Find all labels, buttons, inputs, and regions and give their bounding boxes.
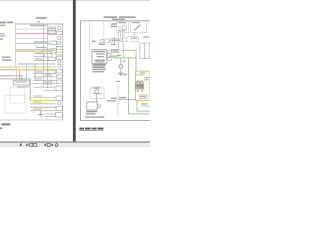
wire tan vertical drop (18, 70, 21, 81)
wire label row2 (36, 47, 46, 48)
diagram right border (61, 24, 64, 121)
connector symbol P12 (56, 80, 62, 83)
wire drop left (113, 37, 116, 44)
caption left page (1, 123, 10, 124)
motor symbol M1 (95, 90, 99, 94)
connector symbol P7 (56, 56, 62, 59)
switch blade (134, 25, 141, 31)
wire green vertical long (127, 57, 130, 114)
wire gray row y76.6 (33, 76, 56, 79)
wire label row1 (34, 41, 47, 42)
violet stub right (148, 57, 151, 60)
note text left of relay box (111, 23, 117, 25)
wire gray row y83.3 (33, 82, 56, 85)
faint wire from top border to module (88, 21, 91, 50)
header text left page (36, 17, 47, 19)
wire gray row y73.3 (33, 72, 56, 75)
label right of stub (123, 61, 126, 63)
connector symbol P3 (58, 36, 61, 39)
diagram top border (14, 23, 63, 26)
connector symbol P17 (56, 113, 63, 117)
wire gray row3 short (34, 55, 44, 58)
yellow module box (135, 71, 150, 100)
wire teal row (18, 63, 36, 66)
diagram bottom border (0, 119, 63, 122)
wire vertical band to box1 (117, 43, 120, 50)
violet top stub right (148, 42, 151, 45)
right page border top (80, 19, 150, 22)
junction block box (87, 102, 97, 110)
wire yellow vertical (14, 24, 17, 67)
harness dashed vertical (117, 84, 119, 117)
faint wire down to band connector (103, 21, 106, 39)
connector box J6 (48, 70, 56, 73)
connector symbol P6 (56, 52, 63, 55)
label right of fuse (143, 36, 149, 37)
text rows inside yellow box right (144, 77, 149, 78)
wire gray stub to ground (120, 58, 123, 65)
wire faint violet row (16, 37, 48, 40)
connector symbol P4 (58, 41, 61, 44)
inner yellow small box (139, 95, 147, 99)
motor label (93, 87, 100, 88)
connector symbol P2 (56, 31, 62, 34)
connector symbol P8 (58, 60, 61, 63)
wire gray row2 (16, 48, 51, 51)
wire green bottom horizontal (128, 112, 150, 115)
motor dashed box (90, 87, 104, 99)
wire green exit vertical (136, 100, 139, 111)
harness top label (116, 81, 120, 82)
wire gray row y80 (33, 79, 56, 82)
wire tan bottom row (30, 106, 56, 109)
connector box J1 (48, 27, 56, 31)
switch drop wire (133, 33, 136, 37)
connector symbol P11 (56, 75, 62, 78)
junction side tab (97, 105, 100, 108)
wire gray mid label left (111, 98, 117, 99)
green label small (141, 103, 147, 104)
motor internal wire (92, 92, 101, 95)
small text label mid (92, 41, 95, 43)
wire gray row y90.4 (44, 89, 56, 92)
notes text rows under X1 (92, 64, 106, 66)
connector stubs right of X1 (108, 50, 112, 53)
wire label row3 (35, 53, 43, 54)
green wire label (110, 56, 117, 57)
wire yellow row (0, 66, 56, 69)
relay R1 symbol (136, 83, 140, 89)
wire magenta row (16, 32, 56, 35)
connector box J2 (48, 31, 56, 34)
bottom note row (85, 116, 104, 117)
fuse box F1 (131, 36, 139, 41)
motor drop wire (95, 94, 98, 102)
wire green short right (141, 105, 150, 108)
junction block label (86, 111, 97, 112)
header text right page line2 (112, 19, 125, 20)
wire teal vertical (34, 64, 37, 80)
wire gray bottom row2 (30, 109, 56, 112)
wire gray drop x26 (25, 64, 28, 80)
wire tan L horizontal (121, 49, 136, 52)
connector symbol P9 (58, 64, 61, 67)
right page border bottom (80, 119, 150, 122)
inline component on stub (119, 65, 122, 68)
connector symbol P14 (56, 96, 62, 101)
violet divider (143, 43, 146, 59)
wire green main horizontal (111, 56, 136, 59)
connector box J5 (48, 57, 56, 60)
ground symbol (39, 111, 42, 114)
connector box J4 (50, 49, 57, 53)
label next to K1 (117, 55, 121, 57)
tiny colored mark above border (37, 21, 40, 22)
wire faint pink row (16, 28, 48, 31)
top hairline (0, 0, 150, 1)
wire green coil horizontal (136, 73, 145, 76)
connector symbol P10 (56, 70, 62, 73)
toolbar top line (0, 141, 150, 142)
connector marks mid (45, 54, 53, 57)
stub continues (120, 68, 123, 73)
violet box (140, 43, 149, 59)
page background (0, 0, 150, 150)
text under border (30, 25, 46, 27)
wire gray bottom row (30, 103, 56, 106)
left notes text y56-62 (2, 57, 11, 58)
wire violet vertical (21, 75, 24, 80)
faint big boxes bottom-left (10, 88, 24, 103)
divider bar (73, 0, 76, 143)
wire green exit horizontal (137, 110, 150, 113)
connector band row (100, 39, 103, 42)
header text right page line1 (104, 16, 118, 18)
connector box C1 (13, 80, 30, 85)
label above green inside box (140, 72, 145, 73)
bus vertical x43.5 (42, 24, 45, 88)
wire tan L vertical (135, 50, 138, 72)
caption right page (79, 128, 84, 130)
relay R2 symbol (140, 83, 143, 89)
label above relays (136, 81, 143, 82)
relay legs (136, 89, 139, 92)
connector symbol P16 (56, 106, 62, 110)
stub wires below relay box (117, 33, 120, 38)
wire orange row (16, 50, 53, 53)
wire gray row y63.5 right (36, 63, 56, 66)
wire gray mid (118, 98, 136, 101)
module box X1 with text rows (92, 50, 107, 64)
connector symbol P5 (56, 46, 62, 49)
wire tan row (0, 68, 56, 71)
label under band (99, 44, 105, 45)
connector symbol P13 (56, 86, 62, 91)
wire gray row y60 (34, 59, 56, 62)
small box K1 (112, 49, 120, 52)
wire yellow bottom row (30, 99, 56, 102)
wire gray mid label right (119, 97, 126, 98)
bus vertical x47.5 (46, 24, 49, 88)
wire label y71.5 (35, 71, 43, 72)
title text block top-left (0, 22, 6, 24)
connector symbol P15 (57, 102, 60, 105)
switch box S1 dashed (131, 21, 147, 33)
connector box J7 (44, 80, 52, 84)
wire yellow vertical drop (15, 67, 18, 81)
right page border left (79, 20, 82, 121)
connector symbol P1 (58, 27, 61, 30)
relay box U1 dashed (117, 21, 129, 33)
ground symbol right page (118, 72, 123, 75)
wire vertical gray to green (122, 43, 125, 58)
bottom rows (30, 96, 56, 99)
wire gray row y87 (33, 86, 56, 89)
toolbar icon marks (20, 144, 22, 147)
connector box J3 (50, 41, 57, 45)
wire green row (0, 77, 31, 80)
label row under (107, 100, 116, 101)
wire gray row1 (16, 42, 51, 45)
toolbar band (0, 143, 150, 147)
wire magenta row3 (0, 74, 22, 77)
label left of green vertical (124, 74, 127, 76)
short rows (44, 113, 56, 116)
wire green vertical (29, 78, 32, 100)
